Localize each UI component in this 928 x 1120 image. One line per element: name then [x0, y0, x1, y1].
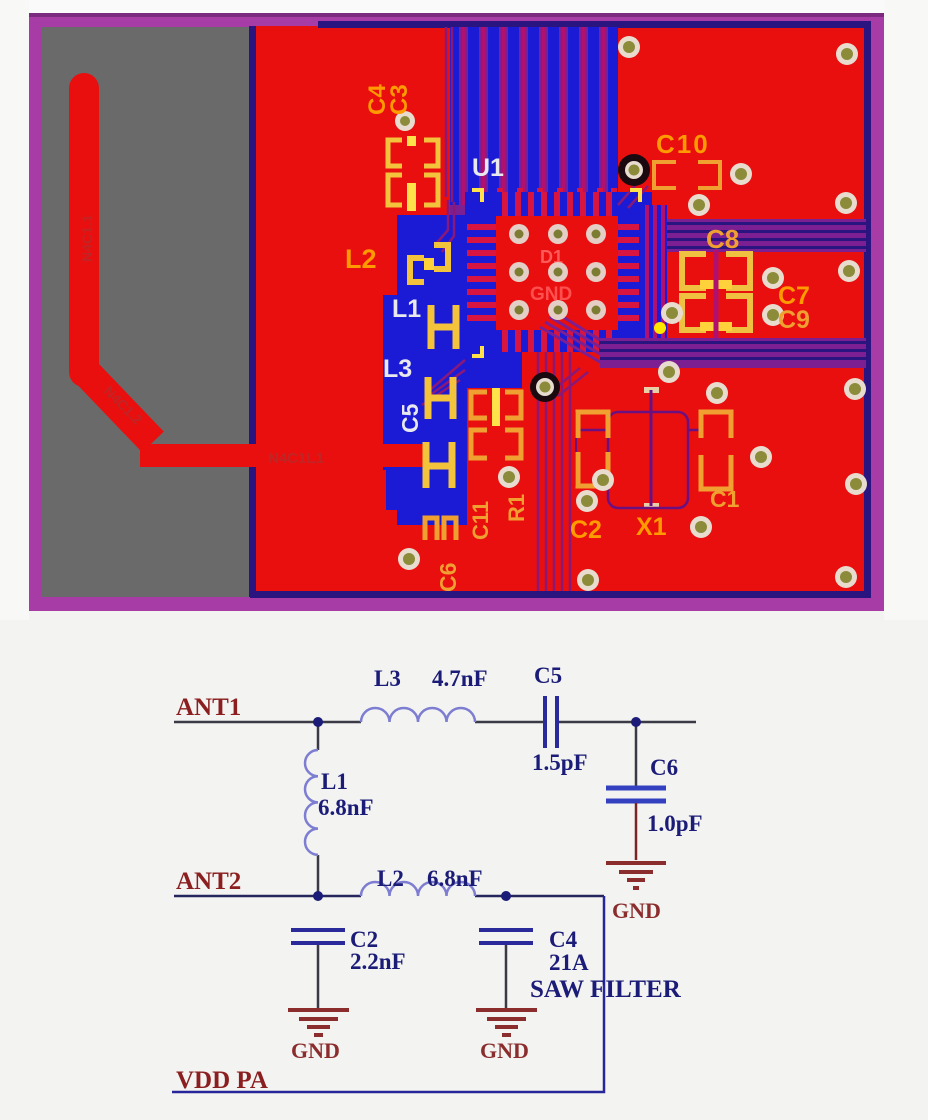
svg-text:21A: 21A — [549, 950, 589, 975]
svg-text:1.5pF: 1.5pF — [532, 750, 588, 775]
svg-text:L2: L2 — [377, 866, 404, 891]
svg-text:C1: C1 — [710, 486, 740, 512]
svg-text:4.7nF: 4.7nF — [432, 666, 488, 691]
svg-text:X1: X1 — [636, 513, 667, 541]
svg-text:2.2nF: 2.2nF — [350, 949, 406, 974]
svg-text:C5: C5 — [534, 663, 562, 688]
svg-text:GND: GND — [612, 898, 661, 923]
svg-text:ANT1: ANT1 — [176, 694, 241, 721]
svg-text:6.8nF: 6.8nF — [427, 866, 483, 891]
svg-text:6.8nF: 6.8nF — [318, 795, 374, 820]
svg-text:1.0pF: 1.0pF — [647, 811, 703, 836]
svg-text:C6: C6 — [435, 563, 461, 592]
svg-text:C2: C2 — [570, 516, 602, 544]
svg-text:SAW FILTER: SAW FILTER — [530, 976, 682, 1003]
svg-text:R1: R1 — [504, 494, 529, 522]
svg-text:C10: C10 — [656, 129, 710, 159]
svg-text:L3: L3 — [374, 666, 401, 691]
svg-text:C4: C4 — [549, 927, 578, 952]
svg-text:L1: L1 — [321, 769, 348, 794]
svg-text:L3: L3 — [383, 355, 412, 383]
svg-text:N4C1L1: N4C1L1 — [268, 450, 324, 467]
svg-text:VDD PA: VDD PA — [176, 1067, 268, 1094]
svg-text:C5: C5 — [397, 403, 423, 433]
svg-text:N4C1.1: N4C1.1 — [79, 214, 95, 262]
svg-text:L2: L2 — [345, 244, 377, 274]
svg-text:U1: U1 — [472, 154, 504, 182]
svg-text:ANT2: ANT2 — [176, 868, 241, 895]
svg-text:GND: GND — [291, 1038, 340, 1063]
svg-text:GND: GND — [480, 1038, 529, 1063]
svg-text:GND: GND — [530, 284, 572, 305]
svg-text:C3: C3 — [386, 84, 413, 115]
svg-text:C8: C8 — [706, 224, 739, 254]
svg-text:L1: L1 — [392, 295, 421, 323]
svg-text:C11: C11 — [468, 501, 493, 540]
svg-text:C9: C9 — [778, 306, 810, 334]
svg-text:C6: C6 — [650, 755, 678, 780]
